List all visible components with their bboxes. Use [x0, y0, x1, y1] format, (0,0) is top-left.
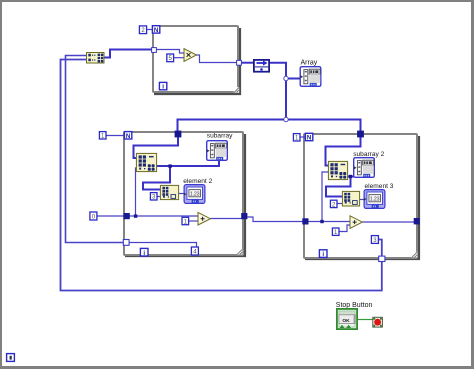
wire: multiply output to FL1 right tunnel: [196, 55, 237, 63]
subarray indicator terminal: [207, 141, 228, 161]
wire: constant 3 net, long run bottom and left up to build-array lower input: [61, 60, 382, 291]
page identifier icon (bottom-left): [7, 354, 15, 362]
wire: constant 1 to add 2 bottom input: [339, 225, 350, 232]
wire: build-array output to FL1 left tunnel (array): [104, 50, 152, 58]
svg-text:i: i: [162, 84, 164, 91]
for-loop FL2 (left) shadow: [125, 134, 245, 256]
iteration terminal FL1: [159, 82, 166, 90]
for-loop FL1 (top) border: [153, 26, 238, 92]
constant 1 (FL3 count): [293, 134, 300, 142]
iteration terminal FL3: [319, 250, 327, 258]
iteration terminal FL2: [140, 248, 148, 256]
constant 1 (FL2 count): [99, 132, 106, 140]
index-array function FL2: [160, 185, 178, 199]
svg-text:N: N: [154, 27, 159, 34]
svg-text:N: N: [307, 135, 312, 142]
FL2 resize glyph: [237, 249, 243, 255]
junction square on counter row FL2: [134, 214, 137, 217]
wire: feedback node output down to distribution junctions (array): [270, 63, 286, 120]
N count terminal FL1: [152, 26, 159, 34]
N count terminal FL2: [124, 132, 131, 140]
constant 5: [167, 54, 174, 62]
svg-text:subarray 2: subarray 2: [353, 151, 384, 158]
for-loop FL2 (left) border: [124, 132, 243, 255]
FL3 right tunnel: [414, 218, 420, 224]
wire: FL2 inside, top tunnel down to array-subset input (array): [134, 137, 179, 158]
svg-text:i: i: [143, 250, 145, 257]
wire: constant 1 to FL2 N terminal: [106, 135, 124, 137]
FL2 top tunnel: [175, 131, 182, 138]
junction square on subset output wire FL3: [349, 175, 352, 178]
svg-text:Stop Button: Stop Button: [336, 302, 373, 309]
wire: FL1 inside, tunnel to multiply top input: [156, 50, 184, 54]
wire: junction up to array-subset index input: [136, 168, 138, 216]
svg-text:i: i: [322, 251, 324, 258]
wire: constant 0 to FL2 left tunnel: [97, 215, 124, 217]
junction dot on array wire at distribution tee: [284, 117, 288, 121]
wire: junction up to array-subset 2 index input: [322, 172, 328, 222]
wire: constant 2 to FL1 N terminal: [147, 29, 152, 31]
N count terminal FL3: [305, 133, 312, 141]
FL2 left hollow tunnel: [123, 240, 129, 246]
FL2 right tunnel: [241, 213, 247, 219]
wire: constant 4 net, left vertical run to build-array upper input: [66, 56, 124, 243]
wire: horizontal distribution to both loop tunnels (array): [178, 120, 361, 135]
constant 0: [90, 212, 97, 221]
wire: FL3 inside counter row to add function: [308, 221, 350, 223]
for-loop FL3 (right) border: [304, 134, 417, 258]
for-loop FL1 (top) shadow: [154, 28, 240, 94]
Array indicator terminal: [300, 67, 321, 87]
wire: FL3 inside, top tunnel down to array-subset 2 input (array): [326, 137, 361, 166]
element 2 indicator terminal: [184, 185, 205, 204]
Stop Button boolean terminal: [337, 309, 357, 329]
wire: stop button to stop function (boolean, green): [358, 319, 373, 321]
add function FL2: [198, 212, 210, 225]
svg-text:OK: OK: [342, 318, 350, 324]
wire: constant 1 to FL3 N terminal: [300, 136, 305, 138]
junction square on counter row FL3: [320, 220, 323, 223]
constant 2 (FL1 count): [139, 26, 146, 34]
wire: index-array output to element 2 indicator: [179, 193, 184, 195]
svg-text:N: N: [126, 133, 131, 140]
wire: branch down to index-array input (array): [143, 166, 170, 190]
multiply function FL1: [184, 49, 196, 62]
FL1 resize glyph: [234, 87, 239, 92]
svg-text:subarray: subarray: [207, 132, 233, 139]
wire: branch to Array indicator (array): [286, 78, 300, 80]
array-subset function FL3: [328, 161, 347, 179]
FL2 left tunnel: [124, 213, 130, 219]
svg-text:Array: Array: [301, 60, 318, 67]
junction square on subset output wire FL2: [168, 164, 171, 167]
wire: array-subset output to subarray indicator (array): [157, 161, 219, 166]
wire: constant 3 to index-array index input: [157, 196, 160, 198]
wire: constant 2 to index-array 2 index input: [337, 203, 342, 205]
wire: branch down to index-array 2 input (array): [326, 177, 351, 197]
wire: index-array 2 output to element 3 indicator: [360, 199, 364, 201]
constant 4: [191, 247, 198, 256]
constant 3 (index): [150, 193, 157, 201]
array-subset function FL2: [136, 153, 156, 171]
index-array function FL3: [342, 191, 359, 206]
wire: constant 5 to multiply bottom input: [173, 57, 184, 59]
svg-text:element 2: element 2: [183, 178, 212, 185]
stop function icon: [373, 317, 383, 327]
constant 1 (add FL3): [332, 228, 339, 236]
wire: FL2 inside counter row to add function: [130, 215, 199, 217]
wire: constant 1 to add bottom input: [189, 220, 198, 222]
build-array function: [87, 53, 105, 64]
wire: constant 4 net, inside FL2 from tunnel to constant: [126, 243, 197, 248]
wire: add 2 output to FL3 right tunnel: [362, 221, 414, 223]
FL1 right tunnel: [237, 60, 242, 65]
FL3 bottom hollow tunnel: [379, 256, 385, 261]
junction dot on array wire above Array indicator: [284, 76, 288, 80]
element 3 indicator terminal: [364, 190, 385, 209]
constant 1 (add): [182, 217, 189, 225]
for-loop FL3 (right) shadow: [305, 136, 419, 259]
FL3 top tunnel: [357, 131, 364, 138]
wire: add output to FL2 right tunnel: [210, 218, 242, 220]
FL3 left tunnel: [302, 218, 308, 224]
FL3 resize glyph: [412, 252, 418, 258]
wire: array-subset 2 output to subarray 2 indicator (array): [348, 176, 354, 178]
wire: FL2 right tunnel to FL3 left tunnel: [248, 217, 304, 222]
feedback node: [254, 60, 269, 72]
constant 2 (index): [330, 200, 337, 208]
wire: FL1 right tunnel to feedback node (array): [241, 62, 253, 64]
constant 3 (FL3): [371, 236, 378, 244]
FL1 left tunnel: [152, 48, 157, 53]
add function FL3: [350, 216, 362, 229]
subarray 2 indicator terminal: [354, 158, 375, 178]
